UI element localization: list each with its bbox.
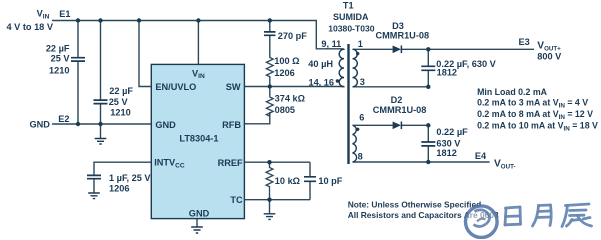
svg-text:8: 8 (358, 152, 363, 162)
wire Vin rail (52, 21, 341, 49)
svg-text:Min Load 0.2 mA: Min Load 0.2 mA (477, 87, 548, 97)
watermark logo circle (466, 206, 498, 238)
wire Cout1 (427, 49, 429, 87)
wire Vin pin (197, 21, 199, 65)
svg-text:1206: 1206 (109, 183, 129, 193)
svg-text:1812: 1812 (437, 68, 457, 78)
svg-text:1 µF, 25 V: 1 µF, 25 V (109, 173, 151, 183)
svg-text:3: 3 (360, 77, 365, 87)
secondary winding top (1-3) (353, 49, 358, 87)
svg-text:TC: TC (230, 195, 243, 205)
node E3 Vout+ (519, 37, 563, 61)
svg-text:630 V: 630 V (436, 138, 461, 148)
svg-text:6: 6 (359, 113, 364, 123)
ground at Cin2 (95, 139, 107, 145)
wire 270pF/100ohm branch (269, 21, 271, 87)
svg-text:E1: E1 (59, 9, 70, 19)
wire Cin1 (77, 21, 79, 125)
svg-text:25 V: 25 V (51, 54, 71, 64)
wire 10pF branch (309, 162, 311, 200)
wire EN/UVLO (139, 21, 151, 87)
svg-text:1210: 1210 (49, 66, 69, 76)
svg-text:EN/UVLO: EN/UVLO (155, 82, 196, 92)
capacitor 10pF (304, 177, 316, 182)
svg-text:9, 11: 9, 11 (321, 39, 341, 49)
svg-text:1812: 1812 (436, 148, 456, 158)
wire RREF (244, 161, 310, 163)
resistor 10k (266, 166, 273, 194)
watermark character YUE (moon) (533, 205, 552, 226)
resistor 374k (266, 96, 273, 117)
svg-text:CMMR1U-08: CMMR1U-08 (373, 105, 427, 115)
wire E4 (353, 161, 490, 163)
svg-text:270 pF: 270 pF (278, 31, 307, 41)
svg-text:E4: E4 (475, 151, 487, 161)
svg-text:RREF: RREF (218, 158, 243, 168)
svg-text:T1: T1 (343, 0, 354, 10)
svg-text:E2: E2 (58, 114, 69, 124)
wire IC GND pin (196, 219, 198, 227)
svg-text:0.22 µF: 0.22 µF (436, 127, 468, 137)
capacitor 1uF INTVcc (87, 175, 101, 178)
diode D3 (376, 21, 430, 53)
wire D2 cathode (402, 124, 428, 126)
svg-text:Note: Unless Otherwise Specifi: Note: Unless Otherwise Specified (348, 199, 482, 209)
wire INTVcc (94, 162, 151, 192)
note 0603 text (348, 199, 499, 220)
wire D3 cathode to E3 (402, 48, 534, 50)
secondary winding bottom (6-8) (353, 125, 357, 162)
svg-text:SUMIDA: SUMIDA (333, 12, 369, 22)
wire secondary1 top to D3 (353, 48, 393, 50)
capacitor 0.22uF output top (421, 66, 435, 70)
min load note text (477, 87, 598, 132)
svg-text:1: 1 (358, 39, 363, 49)
svg-text:0805: 0805 (275, 105, 295, 115)
node E2 / GND label (30, 114, 70, 130)
svg-text:374 kΩ: 374 kΩ (275, 94, 305, 104)
capacitor 0.22uF output bottom (421, 142, 435, 146)
wire 10k branch (269, 162, 271, 213)
ground at 10k/TC (264, 214, 276, 220)
wire secondary2 top to D2 (353, 124, 393, 126)
svg-text:SW: SW (226, 82, 241, 92)
svg-text:1206: 1206 (274, 68, 294, 78)
wire secondary1 bottom (353, 86, 429, 88)
ground at 1uF (88, 193, 100, 199)
svg-text:40 µH: 40 µH (308, 59, 333, 69)
diode D2 (373, 95, 427, 129)
wire Cout2 (427, 125, 429, 162)
node E4 Vout- (475, 151, 516, 171)
transformer core (347, 44, 349, 164)
wire 374k to RFB (244, 87, 269, 124)
svg-text:25 V: 25 V (109, 97, 129, 107)
svg-text:10380-T030: 10380-T030 (328, 24, 375, 34)
svg-text:LT8304-1: LT8304-1 (179, 134, 218, 144)
wire TC (244, 199, 310, 201)
capacitor 22uF input 1 (71, 58, 85, 61)
primary winding 40uH (339, 49, 344, 87)
svg-text:800 V: 800 V (537, 51, 562, 61)
node E1 / VIN label (7, 9, 71, 32)
svg-text:14, 16: 14, 16 (308, 78, 334, 88)
svg-text:100 Ω: 100 Ω (274, 56, 299, 66)
svg-text:GND: GND (155, 120, 176, 130)
svg-text:4 V to 18 V: 4 V to 18 V (7, 22, 54, 32)
svg-text:CMMR1U-08: CMMR1U-08 (376, 30, 430, 40)
svg-text:RFB: RFB (222, 120, 241, 130)
svg-text:1210: 1210 (110, 108, 130, 118)
watermark character CHEN (562, 204, 592, 227)
svg-text:E3: E3 (519, 37, 530, 47)
watermark character RI (sun) (505, 207, 521, 225)
svg-text:22 µF: 22 µF (46, 43, 70, 53)
capacitor 22uF input 2 (94, 100, 108, 104)
wire Cin2 (100, 21, 102, 139)
capacitor 270pF (264, 32, 276, 35)
svg-text:10 pF: 10 pF (318, 176, 342, 186)
svg-text:D2: D2 (391, 95, 403, 105)
resistor 100ohm (266, 56, 273, 77)
ground at IC GND (191, 227, 203, 233)
svg-text:22 µF: 22 µF (109, 86, 133, 96)
svg-text:GND: GND (30, 120, 51, 130)
svg-text:10 kΩ: 10 kΩ (275, 176, 300, 186)
svg-text:GND: GND (189, 209, 210, 219)
wire GND rail (52, 123, 151, 125)
IC U1 LT8304-1 (151, 64, 244, 218)
transformer T1 (308, 0, 374, 164)
wire SW to primary (244, 86, 344, 88)
